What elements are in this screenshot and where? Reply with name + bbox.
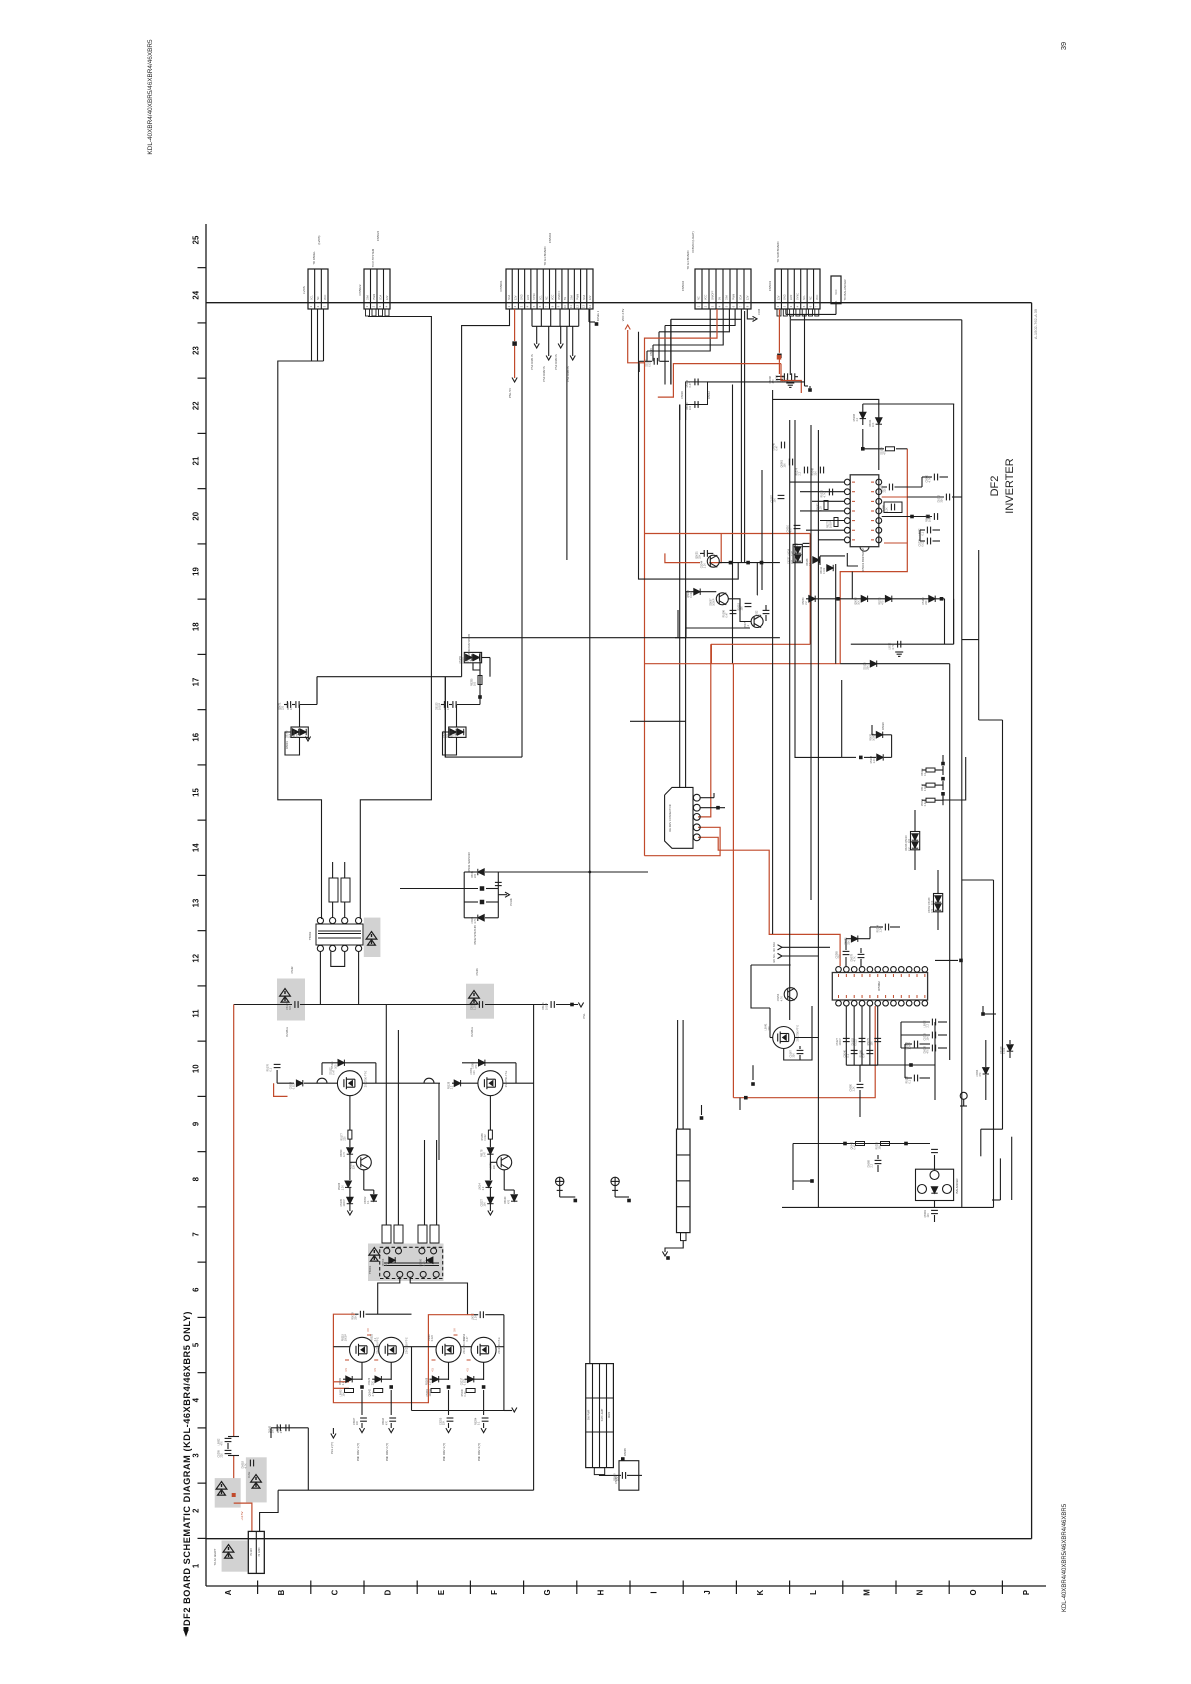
svg-text:J: J: [703, 1590, 712, 1594]
wire black from CN5005: [260, 1490, 279, 1531]
svg-text:0.022: 0.022: [855, 1039, 858, 1046]
wire v772 top: [772, 390, 774, 399]
svg-text:PCL 2 (Y): PCL 2 (Y): [330, 1442, 334, 1454]
svg-text:C: C: [330, 1589, 339, 1595]
connector CN5021 to panel: [308, 269, 328, 309]
svg-text:12V: 12V: [386, 295, 389, 300]
svg-text:4: 4: [192, 1397, 201, 1402]
svg-text:I2C SDA: I2C SDA: [773, 942, 776, 952]
svg-text:1000P: 1000P: [839, 1038, 842, 1046]
svg-text:2SK2750-FT-E: 2SK2750-FT-E: [364, 1070, 367, 1087]
svg-text:220: 220: [282, 705, 285, 710]
wire right v net: [934, 1022, 936, 1100]
transformer T5002 pins bottom: [317, 945, 323, 951]
wire mosfet row left end: [276, 1070, 278, 1083]
svg-text:220: 220: [474, 873, 477, 878]
svg-text:1000P: 1000P: [343, 1199, 346, 1207]
wire long return h1490: [278, 1489, 533, 1491]
svg-text:2.2: 2.2: [482, 1186, 485, 1190]
wire h1129: [981, 1128, 1003, 1130]
svg-text:0.47: 0.47: [689, 382, 692, 387]
svg-text:33K: 33K: [815, 471, 818, 476]
svg-text:1.2K: 1.2K: [474, 1315, 477, 1320]
svg-text:SDA: SDA: [379, 295, 382, 300]
svg-text:0.1: 0.1: [909, 1079, 912, 1083]
warning triangle T5002: [366, 932, 377, 940]
svg-text:6: 6: [192, 1287, 201, 1292]
svg-text:4.7K: 4.7K: [474, 918, 477, 923]
fuse PS5002 red pin: [778, 309, 780, 353]
diode row d3: [940, 597, 944, 601]
wire T5002 out right: [358, 952, 360, 1005]
svg-text:18: 18: [192, 622, 201, 631]
svg-text:1.2K: 1.2K: [703, 563, 706, 568]
svg-text:GND: GND: [784, 294, 787, 300]
wire v980: [980, 1129, 982, 1156]
dual diode D5001: [291, 727, 308, 737]
svg-text:33K: 33K: [289, 1005, 292, 1010]
wire h720: [979, 719, 1003, 721]
svg-text:33K: 33K: [698, 554, 701, 559]
terminal arrow PNL 5V: [512, 378, 517, 383]
svg-text:470: 470: [507, 1199, 510, 1204]
svg-text:0.47: 0.47: [791, 551, 794, 556]
svg-text:33K: 33K: [867, 665, 870, 670]
svg-text:TO BALANCER: TO BALANCER: [843, 279, 847, 301]
wire CN5003 pin2 black: [789, 316, 791, 372]
wire pentagon pin2: [700, 807, 725, 809]
wire balancer v: [792, 1144, 794, 1191]
transformer T5002 gray box: [364, 918, 381, 957]
svg-text:2.2: 2.2: [805, 601, 808, 605]
svg-text:2SK2750-FT-E: 2SK2750-FT-E: [406, 1337, 409, 1354]
svg-text:G: G: [543, 1589, 552, 1595]
svg-text:17: 17: [192, 678, 201, 687]
wire black v 744: [744, 311, 746, 563]
wire v811: [810, 425, 812, 900]
svg-text:5V: 5V: [564, 297, 567, 300]
wire v757 jog: [756, 563, 758, 595]
wire ic1 top feed: [773, 399, 879, 418]
svg-text:TO AC ADAPT: TO AC ADAPT: [213, 1548, 217, 1565]
svg-text:SDA: SDA: [583, 295, 586, 300]
wire red branch v721: [709, 534, 721, 563]
wire red R5 up right: [840, 449, 907, 664]
svg-text:PWM: PWM: [733, 294, 736, 300]
svg-text:100: 100: [879, 1145, 882, 1150]
wire black v 741: [740, 319, 742, 562]
svg-text:0.022: 0.022: [1003, 1047, 1006, 1054]
svg-text:10K: 10K: [931, 900, 934, 905]
svg-text:SDA: SDA: [740, 295, 743, 300]
res balancer: [856, 1142, 865, 1146]
svg-text:0.47: 0.47: [466, 1336, 469, 1341]
svg-text:MAIN: MAIN: [608, 1412, 611, 1418]
svg-text:0.1: 0.1: [847, 1053, 850, 1057]
svg-text:10K: 10K: [484, 1202, 487, 1207]
svg-text:SUB LAMP: SUB LAMP: [601, 1408, 604, 1421]
capacitor ic1 c: [927, 527, 930, 534]
capacitor C5015: [654, 358, 657, 365]
svg-text:470: 470: [931, 908, 934, 913]
svg-text:0.1: 0.1: [270, 1067, 273, 1071]
svg-text:NC: NC: [317, 296, 320, 300]
wire ic1 red h543: [884, 542, 907, 544]
wire v795: [794, 420, 796, 680]
svg-text:220: 220: [385, 1262, 388, 1267]
wire h1314 right: [474, 1314, 478, 1316]
svg-text:33K: 33K: [355, 1315, 358, 1320]
wire red R5 h663: [645, 663, 841, 665]
svg-text:0.47: 0.47: [776, 445, 779, 450]
wire h721: [630, 720, 686, 722]
svg-text:4.7K: 4.7K: [824, 492, 827, 497]
svg-text:PNF DIM1 IN: PNF DIM1 IN: [530, 354, 534, 370]
svg-text:2.2: 2.2: [759, 613, 762, 617]
wire red q1 jog: [665, 553, 700, 562]
junction sq rail: [570, 1003, 574, 1007]
wire h1207: [782, 1206, 994, 1208]
caps far right: [914, 1041, 917, 1048]
svg-text:1.2K: 1.2K: [429, 1380, 432, 1385]
component cluster mid: [859, 756, 863, 760]
capacitor C5104: [551, 1001, 554, 1008]
wire cluster risers: [316, 677, 318, 705]
svg-text:220: 220: [344, 1136, 347, 1141]
svg-text:1.2K: 1.2K: [474, 1005, 477, 1010]
svg-text:TO G1 BOARD: TO G1 BOARD: [543, 246, 547, 265]
svg-text:10K: 10K: [343, 1392, 346, 1397]
wire red stubs: [333, 1381, 349, 1383]
svg-text:19: 19: [192, 567, 201, 576]
svg-text:10K: 10K: [774, 498, 777, 503]
grid axis horizontal line: [206, 1585, 1046, 1587]
mosfet Q5201 chain: [361, 1362, 363, 1380]
gray box G2: [246, 1457, 267, 1502]
svg-text:0.022: 0.022: [823, 567, 826, 574]
gray box hazard A: [277, 979, 305, 1021]
svg-text:24: 24: [192, 290, 201, 299]
capacitor C5044: [763, 610, 770, 613]
wire v439: [438, 1083, 440, 1160]
svg-text:470: 470: [882, 600, 885, 605]
svg-text:C5103: C5103: [476, 968, 479, 976]
svg-text:33K: 33K: [352, 1165, 355, 1170]
capacitor pair box: [686, 382, 708, 405]
wire bus from CN5021: [278, 361, 324, 919]
dual diode D5002: [449, 727, 466, 737]
wire fan drops: [646, 351, 648, 361]
svg-text:CN5203 (LIGHT): CN5203 (LIGHT): [691, 231, 695, 252]
svg-text:0.1: 0.1: [924, 772, 927, 776]
wire D5003 wires: [473, 663, 480, 670]
svg-text:4.7K: 4.7K: [780, 996, 783, 1001]
svg-text:SW PWR: SW PWR: [588, 1410, 591, 1421]
label cap net: [895, 652, 903, 656]
diode D5102 gate: [322, 1062, 376, 1064]
svg-text:C5095: C5095: [614, 1476, 618, 1484]
gray box G1: [215, 1478, 241, 1508]
svg-text:100: 100: [908, 838, 911, 843]
capacitor balancer: [875, 1160, 882, 1163]
svg-text:CN5001: CN5001: [499, 280, 503, 291]
junction right: [981, 1012, 985, 1016]
dual diode near ic1: [793, 544, 802, 562]
svg-text:100: 100: [689, 405, 692, 410]
wire T5002 out left: [319, 952, 321, 1005]
gray box hazard B: [466, 984, 494, 1019]
svg-text:10: 10: [192, 1064, 201, 1073]
dual diodes right col: [911, 832, 920, 850]
svg-text:2.2: 2.2: [908, 847, 911, 851]
svg-text:470: 470: [296, 733, 299, 738]
wire ic1 diodes top: [863, 403, 954, 405]
title hand icon: [184, 1627, 189, 1637]
wire h644 right: [851, 643, 954, 645]
wire pentagon pin1: [700, 797, 714, 799]
svg-text:1.2K: 1.2K: [886, 507, 889, 512]
diode D5101: [296, 1080, 302, 1086]
svg-text:220: 220: [884, 488, 887, 493]
wire ic1 right net1: [863, 448, 884, 450]
wire red R7 pentagon pin5 to IC2: [698, 837, 840, 966]
svg-text:VCC: VCC: [835, 289, 838, 294]
svg-text:10K: 10K: [289, 733, 292, 738]
svg-text:4.7K: 4.7K: [423, 1261, 426, 1266]
svg-text:FUSE: FUSE: [248, 1471, 251, 1478]
svg-text:DIM: DIM: [366, 295, 369, 300]
diode bat right: [983, 1068, 989, 1074]
wire ic2 right caps: [901, 1021, 930, 1023]
svg-text:2.2: 2.2: [856, 417, 859, 421]
svg-text:PWM: PWM: [577, 294, 580, 300]
wire bus pair tops: [679, 405, 681, 421]
wire v589 long: [589, 309, 591, 1364]
svg-text:100: 100: [334, 1064, 337, 1069]
svg-text:1.2K: 1.2K: [820, 506, 823, 511]
terminal arrow VCC 2.5V: [625, 325, 630, 330]
svg-text:33K: 33K: [941, 498, 944, 503]
svg-text:1.2K: 1.2K: [454, 733, 457, 738]
wire black v 566: [566, 326, 568, 560]
circle ground G1: [556, 1177, 564, 1190]
capacitor ic1 d: [927, 538, 930, 545]
svg-text:2SK2750-FT-E: 2SK2750-FT-E: [498, 1337, 501, 1354]
wire red to CN5005: [234, 1503, 252, 1531]
IC U5001 body: [850, 475, 879, 547]
svg-text:PNL: PNL: [582, 1013, 586, 1019]
svg-text:K: K: [756, 1589, 765, 1595]
wire h1200 right: [992, 1199, 1000, 1201]
svg-text:4.7K: 4.7K: [245, 1463, 248, 1468]
wire CN5001 pin1 jog: [462, 309, 510, 639]
svg-text:0.47: 0.47: [924, 801, 927, 806]
svg-text:TO PANEL: TO PANEL: [312, 251, 316, 265]
svg-text:1000P: 1000P: [712, 598, 715, 606]
wire q1 collector row: [719, 562, 780, 564]
wire red PNL 5V: [514, 309, 516, 341]
wire v533 long: [533, 1005, 535, 1491]
svg-text:0.1: 0.1: [447, 706, 450, 710]
wire T5002 below loop: [331, 952, 345, 967]
inductor L5102: [424, 1078, 434, 1083]
frame top line: [206, 302, 1032, 304]
svg-text:VCC: VCC: [705, 295, 708, 300]
wire T5001 left drop: [378, 1277, 400, 1314]
wire h1314 left: [355, 1313, 359, 1315]
wire ic2 top caps: [845, 939, 847, 950]
svg-text:0.47: 0.47: [333, 1069, 336, 1074]
capacitor C5102 in box A: [295, 1001, 298, 1008]
svg-text:8: 8: [192, 1176, 201, 1181]
inductor L5101: [317, 1078, 327, 1083]
diode D5104 gate: [462, 1062, 516, 1064]
svg-text:5: 5: [192, 1342, 201, 1347]
svg-text:2.2: 2.2: [451, 1085, 454, 1089]
svg-text:10K: 10K: [473, 1070, 476, 1075]
svg-text:NC: NC: [809, 296, 812, 300]
svg-text:2.2: 2.2: [799, 471, 802, 475]
svg-text:T5002: T5002: [308, 931, 312, 940]
rectifier network D5010: [464, 871, 477, 873]
svg-text:4.7K: 4.7K: [892, 644, 895, 649]
svg-text:ERR: ERR: [527, 295, 530, 300]
svg-text:33K: 33K: [443, 1420, 446, 1425]
wire CN5021 pins down: [311, 309, 313, 361]
svg-text:TO SUB BOARD: TO SUB BOARD: [776, 241, 780, 262]
svg-text:11: 11: [192, 1009, 201, 1018]
capacitor C5202: [480, 1311, 483, 1318]
wire red R3 v810: [809, 534, 811, 645]
svg-text:100: 100: [784, 463, 787, 468]
diode row d1: [861, 596, 867, 602]
wire fet return right: [412, 1315, 504, 1411]
transistor Q5011: [784, 988, 797, 1001]
wire bus from CN5022: [360, 317, 431, 920]
wire red R4 v645: [644, 363, 646, 856]
diode D5103: [454, 1080, 460, 1086]
diode row d0: [809, 596, 815, 602]
capacitor balancer2: [931, 1210, 938, 1213]
diode d arrow right: [1007, 1045, 1013, 1051]
mosfet Q5204 chain: [483, 1362, 485, 1380]
wire left stub: [638, 361, 640, 372]
wire CN5001 pin3 long down: [521, 309, 523, 757]
svg-text:A-1502-762-A 39: A-1502-762-A 39: [1033, 308, 1038, 339]
wire right net1: [859, 1090, 861, 1117]
svg-text:IC5001 BD9766FV: IC5001 BD9766FV: [861, 548, 865, 572]
wire v1002: [1002, 720, 1004, 1129]
wire h663 right: [840, 663, 950, 665]
vertical connector CN5007: [586, 1364, 614, 1468]
svg-text:CN5022: CN5022: [358, 284, 362, 295]
svg-text:3: 3: [192, 1453, 201, 1458]
wire mosfet row line: [277, 1082, 294, 1084]
IC U5002 pins: [836, 967, 842, 973]
wire main rail h1004: [234, 1004, 292, 1006]
wire red R6 pentagon pin3: [698, 644, 711, 817]
svg-text:100: 100: [271, 1429, 274, 1434]
svg-text:21: 21: [192, 456, 201, 465]
svg-text:4.7K: 4.7K: [290, 705, 293, 710]
svg-text:15: 15: [192, 788, 201, 797]
svg-text:23: 23: [192, 346, 201, 355]
transistor Q5002: [716, 593, 728, 605]
svg-text:1.2K: 1.2K: [880, 927, 883, 932]
wire diode row h598: [806, 598, 945, 600]
svg-text:D5011 MA2SD23: D5011 MA2SD23: [468, 852, 471, 872]
wire red PNL line R2: [658, 364, 781, 398]
svg-text:0.1: 0.1: [367, 1200, 370, 1204]
svg-text:BALANCER: BALANCER: [955, 1178, 959, 1193]
wire ic2 input arrows: [778, 945, 783, 950]
IC U5001 pins: [844, 479, 850, 485]
svg-text:D5020: D5020: [881, 722, 885, 730]
wire ic1 bottom nets: [820, 555, 845, 557]
wire cluster h676: [317, 676, 462, 678]
svg-text:PNF DRV 3 (Y): PNF DRV 3 (Y): [442, 1443, 446, 1461]
wire v835: [835, 564, 837, 664]
IC U5002 body: [832, 973, 927, 1001]
wire red loop left: [333, 1314, 474, 1403]
svg-text:R5012: R5012: [707, 391, 711, 399]
svg-text:TO P.SYSTEM: TO P.SYSTEM: [371, 248, 375, 267]
grid axis vertical line: [205, 224, 207, 1586]
svg-text:16: 16: [192, 732, 201, 741]
svg-text:NC: NC: [698, 296, 701, 300]
wire v398: [397, 1030, 399, 1225]
svg-text:KDL-40XBR4/40XBR5/46XBR4/46XBR: KDL-40XBR4/40XBR5/46XBR4/46XBR5: [1062, 1503, 1068, 1612]
svg-text:0 V: 0 V: [454, 1328, 457, 1332]
svg-text:9: 9: [192, 1121, 201, 1126]
svg-text:2SK2750-FT-E: 2SK2750-FT-E: [797, 1025, 800, 1042]
svg-text:H: H: [596, 1589, 605, 1595]
svg-text:PNF DRV 2 (Y): PNF DRV 2 (Y): [385, 1443, 389, 1461]
connector CN5001 14pin: [506, 269, 593, 309]
wire ic1 left net: [790, 481, 845, 483]
svg-text:470: 470: [385, 1420, 388, 1425]
svg-text:NC: NC: [545, 296, 548, 300]
svg-text:0.47: 0.47: [726, 612, 729, 617]
wire v953: [953, 404, 955, 644]
wire red VCC2.5 path: [628, 309, 717, 363]
svg-text:PNF DRV 4 (Y): PNF DRV 4 (Y): [477, 1443, 481, 1461]
wire q1 box: [639, 332, 739, 579]
svg-text:0.47: 0.47: [484, 1152, 487, 1157]
svg-text:C5102: C5102: [291, 966, 294, 974]
wire fet row h1346: [333, 1346, 349, 1348]
svg-text:CN5202: CN5202: [548, 232, 552, 243]
svg-text:33K: 33K: [848, 940, 851, 945]
svg-text:2.2: 2.2: [342, 1381, 345, 1385]
svg-text:2.2: 2.2: [280, 1429, 283, 1433]
wire right col v: [914, 810, 916, 832]
capacitor C on red rail: [225, 1438, 232, 1441]
wire v818: [817, 430, 819, 1207]
svg-text:KDL-40XBR4/40XBR5/46XBR4/46XBR: KDL-40XBR4/40XBR5/46XBR4/46XBR5: [147, 39, 154, 155]
svg-text:12V: 12V: [589, 295, 592, 300]
capacitor right ic1a: [889, 484, 892, 491]
transformer T5001 dashed body: [380, 1247, 443, 1278]
svg-text:I2C SCL: I2C SCL: [773, 953, 776, 963]
connector CN5022: [364, 269, 390, 309]
wire red R4 to pentagon pin4: [645, 827, 721, 855]
svg-text:12V: 12V: [514, 295, 517, 300]
svg-text:PNF DIM2 IN: PNF DIM2 IN: [542, 366, 546, 382]
wire CN5003 pin stubs: [777, 309, 781, 316]
wire q2 net: [686, 591, 716, 593]
connector CN5002 8pin: [695, 269, 751, 309]
